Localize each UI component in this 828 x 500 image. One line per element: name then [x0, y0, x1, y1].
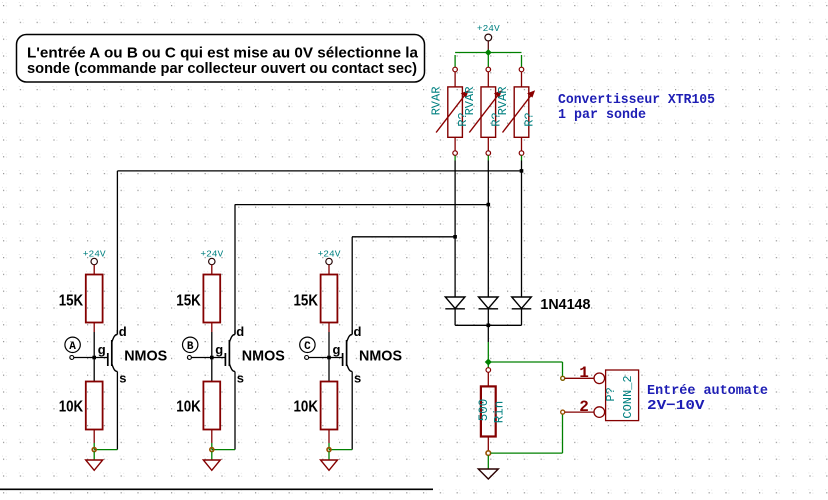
svg-text:2: 2: [579, 398, 589, 416]
svg-text:C: C: [304, 341, 311, 353]
svg-text:1N4148: 1N4148: [540, 296, 590, 313]
svg-text:L'entrée A ou B ou C qui est m: L'entrée A ou B ou C qui est mise au 0V …: [27, 45, 419, 62]
svg-text:RVAR: RVAR: [463, 87, 477, 116]
svg-text:RVAR: RVAR: [496, 87, 510, 116]
svg-text:B: B: [187, 341, 194, 353]
svg-text:R?: R?: [489, 112, 503, 126]
svg-text:P?: P?: [604, 387, 618, 401]
svg-text:RVAR: RVAR: [430, 87, 444, 116]
svg-text:Rin: Rin: [493, 401, 507, 424]
svg-text:Entrée automate: Entrée automate: [647, 383, 768, 399]
svg-text:1: 1: [579, 364, 589, 382]
svg-text:Convertisseur XTR105: Convertisseur XTR105: [558, 92, 715, 108]
svg-text:CONN_2: CONN_2: [621, 375, 635, 418]
svg-text:R?: R?: [523, 112, 537, 126]
svg-text:2V−10V: 2V−10V: [647, 398, 705, 414]
svg-text:R?: R?: [456, 112, 470, 126]
svg-text:sonde (commande par collecteur: sonde (commande par collecteur ouvert ou…: [27, 60, 417, 77]
svg-text:1 par sonde: 1 par sonde: [558, 107, 646, 123]
svg-text:A: A: [69, 341, 76, 353]
svg-text:500: 500: [477, 399, 491, 422]
svg-text:+24V: +24V: [477, 23, 500, 34]
